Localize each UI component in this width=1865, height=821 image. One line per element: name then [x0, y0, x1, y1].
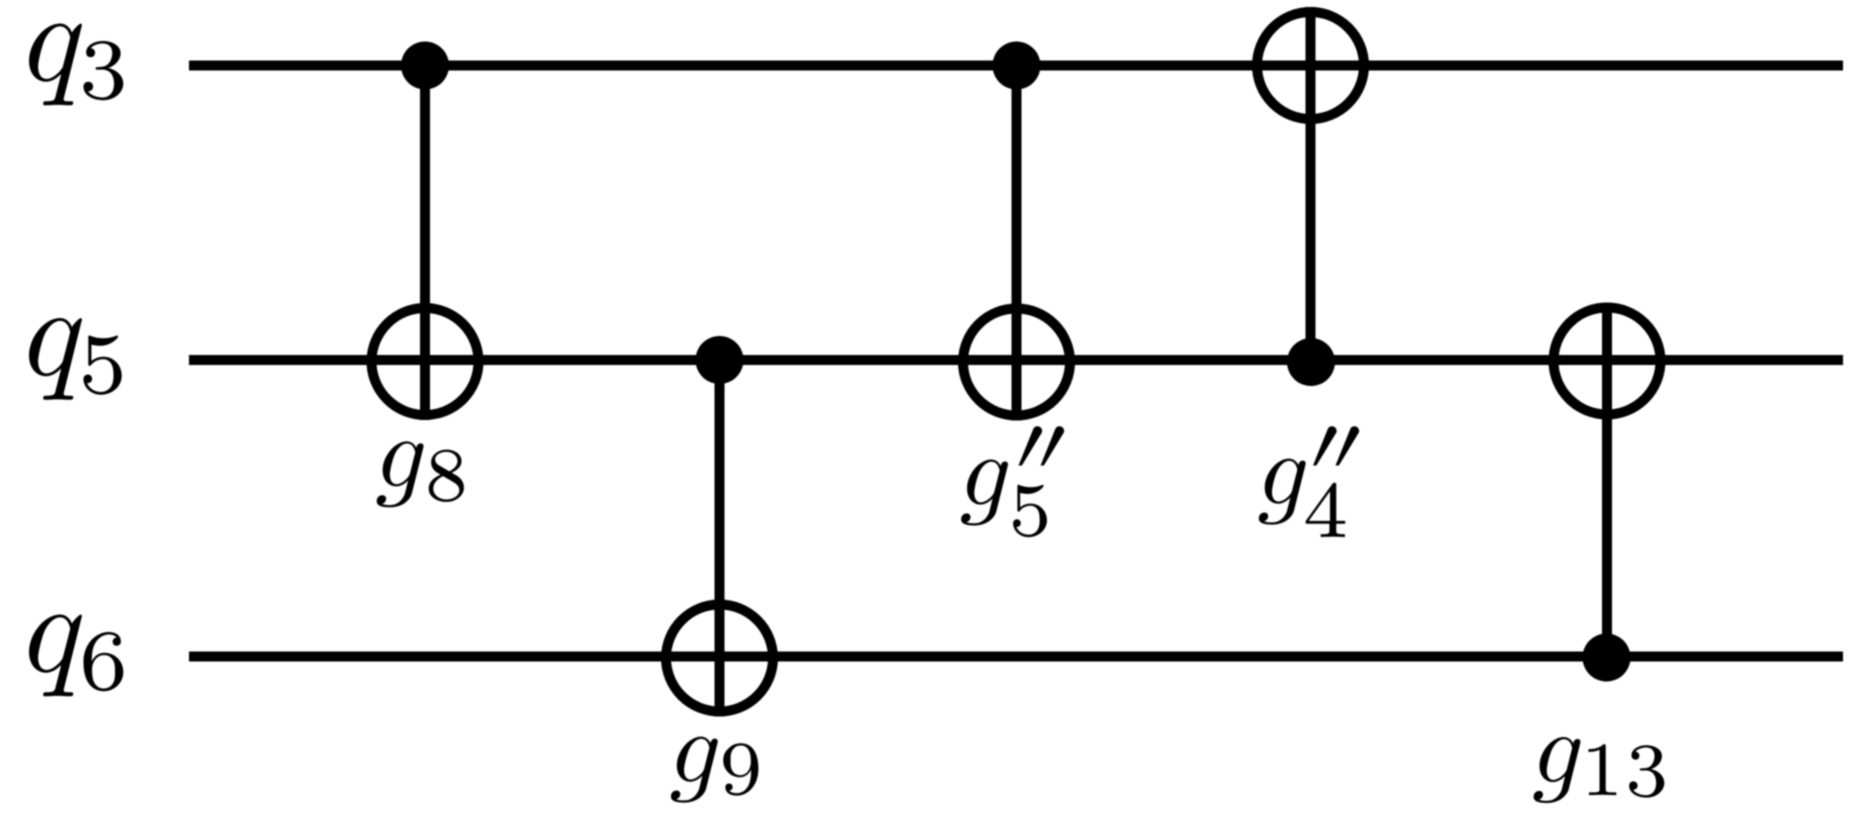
gate label g9 — [671, 737, 758, 803]
CNOT g13 target circle on q5 — [1554, 308, 1661, 415]
CNOT g4'' vertical wire — [1306, 7, 1316, 363]
gate label g13 — [1534, 737, 1665, 803]
CNOT g9 control dot on q5 — [696, 336, 744, 384]
gate label g8 — [377, 441, 464, 507]
CNOT g4'' control dot on q5 — [1287, 338, 1335, 386]
qubit label q6 — [29, 615, 123, 697]
wire q5 — [189, 355, 1843, 365]
qubit label q5 — [29, 318, 122, 400]
wire q3 — [189, 61, 1843, 71]
CNOT g5'' target circle on q5 — [963, 309, 1070, 416]
CNOT g8 control dot on q3 — [401, 42, 449, 90]
CNOT g9 target circle on q6 — [666, 605, 773, 712]
gate label g5 double-prime — [961, 426, 1064, 537]
CNOT g8 vertical wire — [420, 66, 430, 421]
CNOT g8 target circle on q5 — [372, 308, 479, 415]
wire q6 — [189, 652, 1843, 662]
CNOT g13 vertical wire — [1602, 303, 1612, 658]
CNOT g4'' target circle on q3 — [1257, 12, 1364, 119]
CNOT g5'' vertical wire — [1012, 66, 1022, 421]
CNOT g9 vertical wire — [715, 360, 725, 717]
CNOT g13 control dot on q6 — [1583, 634, 1631, 682]
qubit label q3 — [29, 24, 123, 106]
CNOT g5'' control dot on q3 — [993, 42, 1041, 90]
gate label g4 double-prime — [1259, 426, 1359, 537]
